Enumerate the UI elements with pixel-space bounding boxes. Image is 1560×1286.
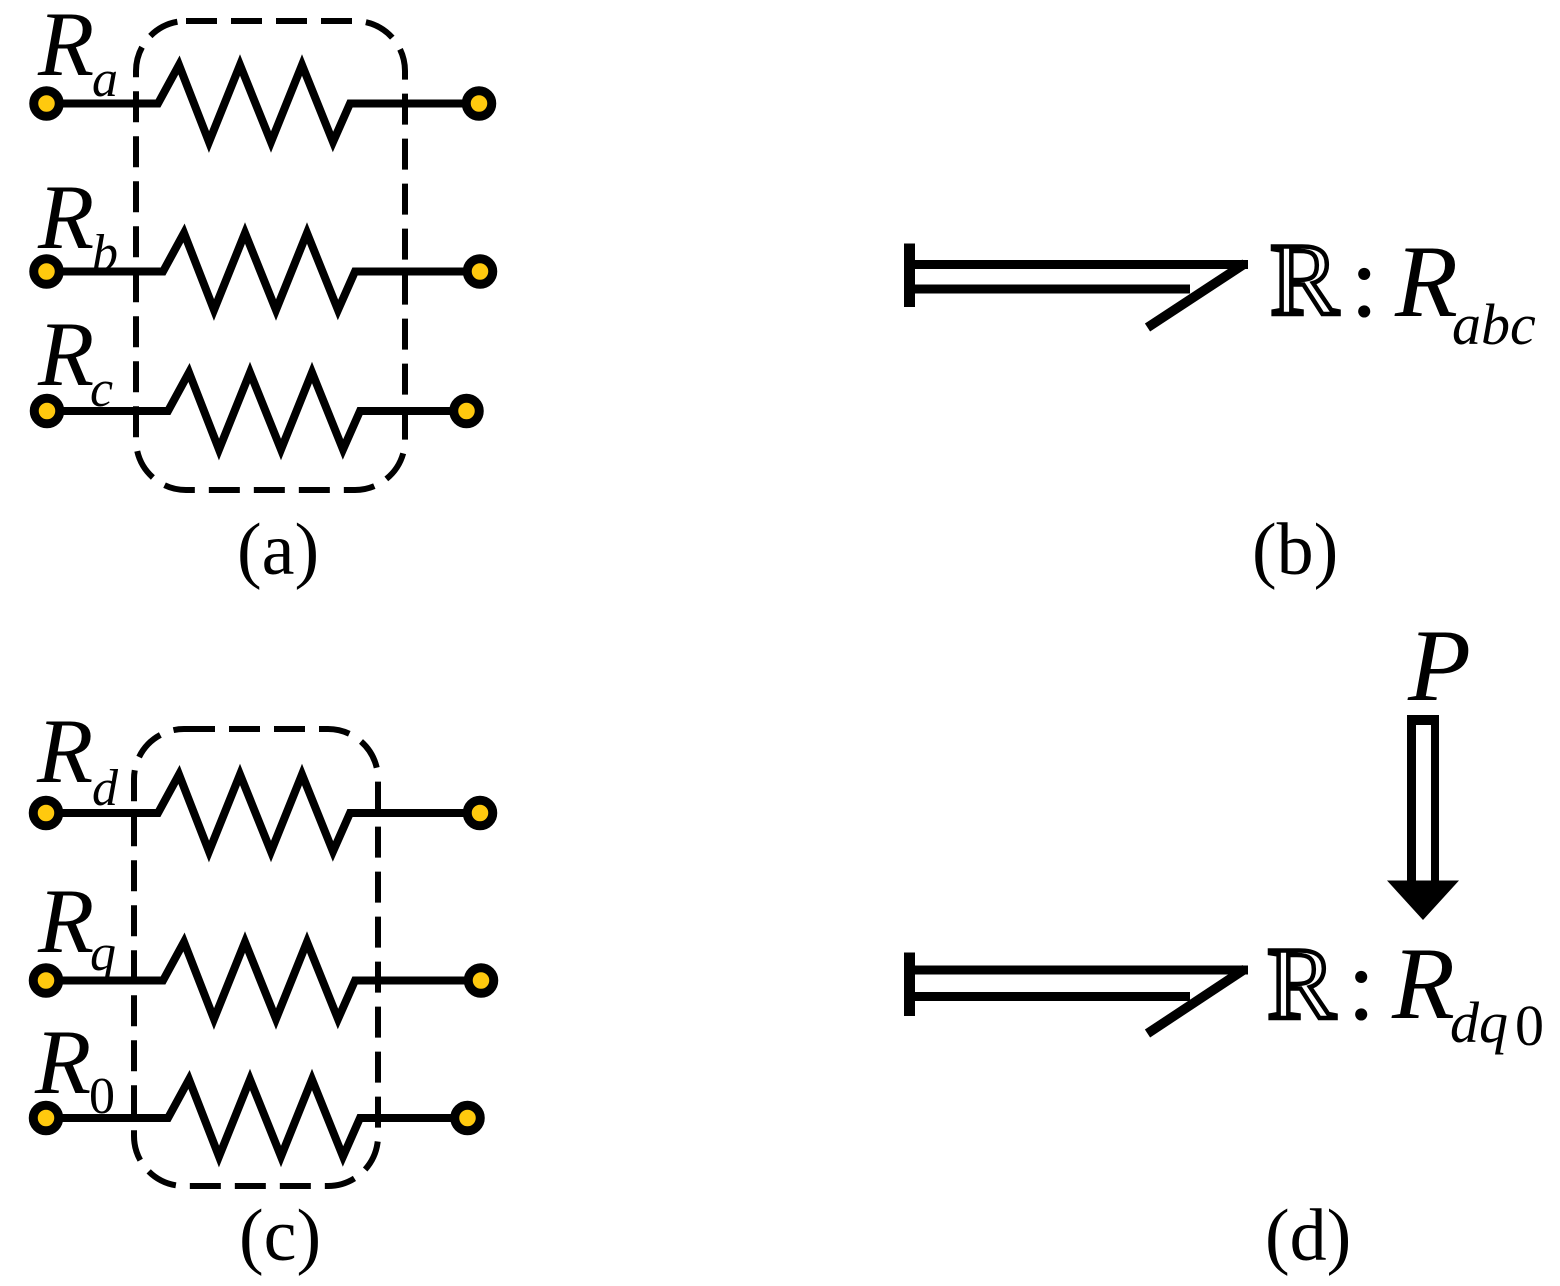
- double arrow shaft: [1407, 715, 1439, 884]
- svg-text::: :: [1347, 928, 1376, 1042]
- bond (b) harpoon diagonal: [1148, 264, 1246, 328]
- svg-text:(c): (c): [239, 1195, 321, 1277]
- bond (b) top line: [909, 260, 1248, 269]
- svg-text:R: R: [37, 166, 94, 268]
- svg-text:R: R: [36, 700, 93, 802]
- resistor R0 wire+zigzag: [46, 1080, 468, 1157]
- svg-text:c: c: [90, 361, 113, 418]
- resistor Rq wire+zigzag: [46, 942, 481, 1019]
- svg-text:(d): (d): [1265, 1195, 1351, 1277]
- svg-text:0: 0: [1515, 993, 1544, 1058]
- terminal left Rc: [34, 398, 60, 424]
- svg-text:d: d: [92, 760, 119, 817]
- svg-text:R: R: [37, 0, 94, 95]
- terminal left Ra: [34, 91, 60, 117]
- dashed box (c): [134, 729, 378, 1186]
- svg-text:R: R: [37, 303, 94, 405]
- terminal right Rc: [454, 398, 480, 424]
- svg-text:R: R: [1394, 225, 1458, 339]
- svg-text:q: q: [90, 925, 116, 982]
- svg-text:R: R: [1391, 927, 1455, 1041]
- dashed box (a): [136, 21, 405, 490]
- svg-text:b: b: [92, 225, 118, 282]
- bond symbol (d): vertical bar: [904, 953, 915, 1017]
- svg-text:0: 0: [89, 1068, 115, 1125]
- resistor Ra wire+zigzag: [47, 65, 480, 142]
- terminal right Ra: [466, 91, 492, 117]
- svg-text:P: P: [1407, 609, 1471, 723]
- terminal right R0: [455, 1105, 481, 1131]
- terminal left Rb: [34, 259, 60, 285]
- terminal right Rd: [467, 800, 493, 826]
- arrow head: [1387, 881, 1459, 921]
- terminal left Rd: [33, 800, 59, 826]
- svg-text:R: R: [37, 870, 94, 972]
- svg-text:R: R: [1270, 223, 1339, 337]
- svg-text:(b): (b): [1252, 509, 1338, 591]
- bond (d) harpoon diagonal: [1148, 969, 1246, 1034]
- svg-text:abc: abc: [1452, 292, 1536, 357]
- terminal right Rq: [468, 968, 494, 994]
- bond (d) top line: [909, 966, 1248, 975]
- resistor Rc wire+zigzag: [47, 373, 467, 450]
- terminal right Rb: [467, 259, 493, 285]
- terminal left Rq: [33, 968, 59, 994]
- svg-text:R: R: [1267, 927, 1336, 1041]
- resistor Rb wire+zigzag: [47, 233, 481, 310]
- bond (b) bottom line: [909, 285, 1190, 294]
- svg-text:a: a: [92, 51, 118, 108]
- svg-text:dq: dq: [1450, 990, 1508, 1055]
- svg-text::: :: [1350, 225, 1379, 339]
- terminal left R0: [33, 1105, 59, 1131]
- svg-text:R: R: [34, 1011, 91, 1113]
- resistor Rd wire+zigzag: [46, 775, 480, 852]
- svg-text:(a): (a): [237, 509, 319, 591]
- bond (d) bottom line: [909, 992, 1190, 1001]
- bond symbol (b): vertical bar: [904, 244, 915, 308]
